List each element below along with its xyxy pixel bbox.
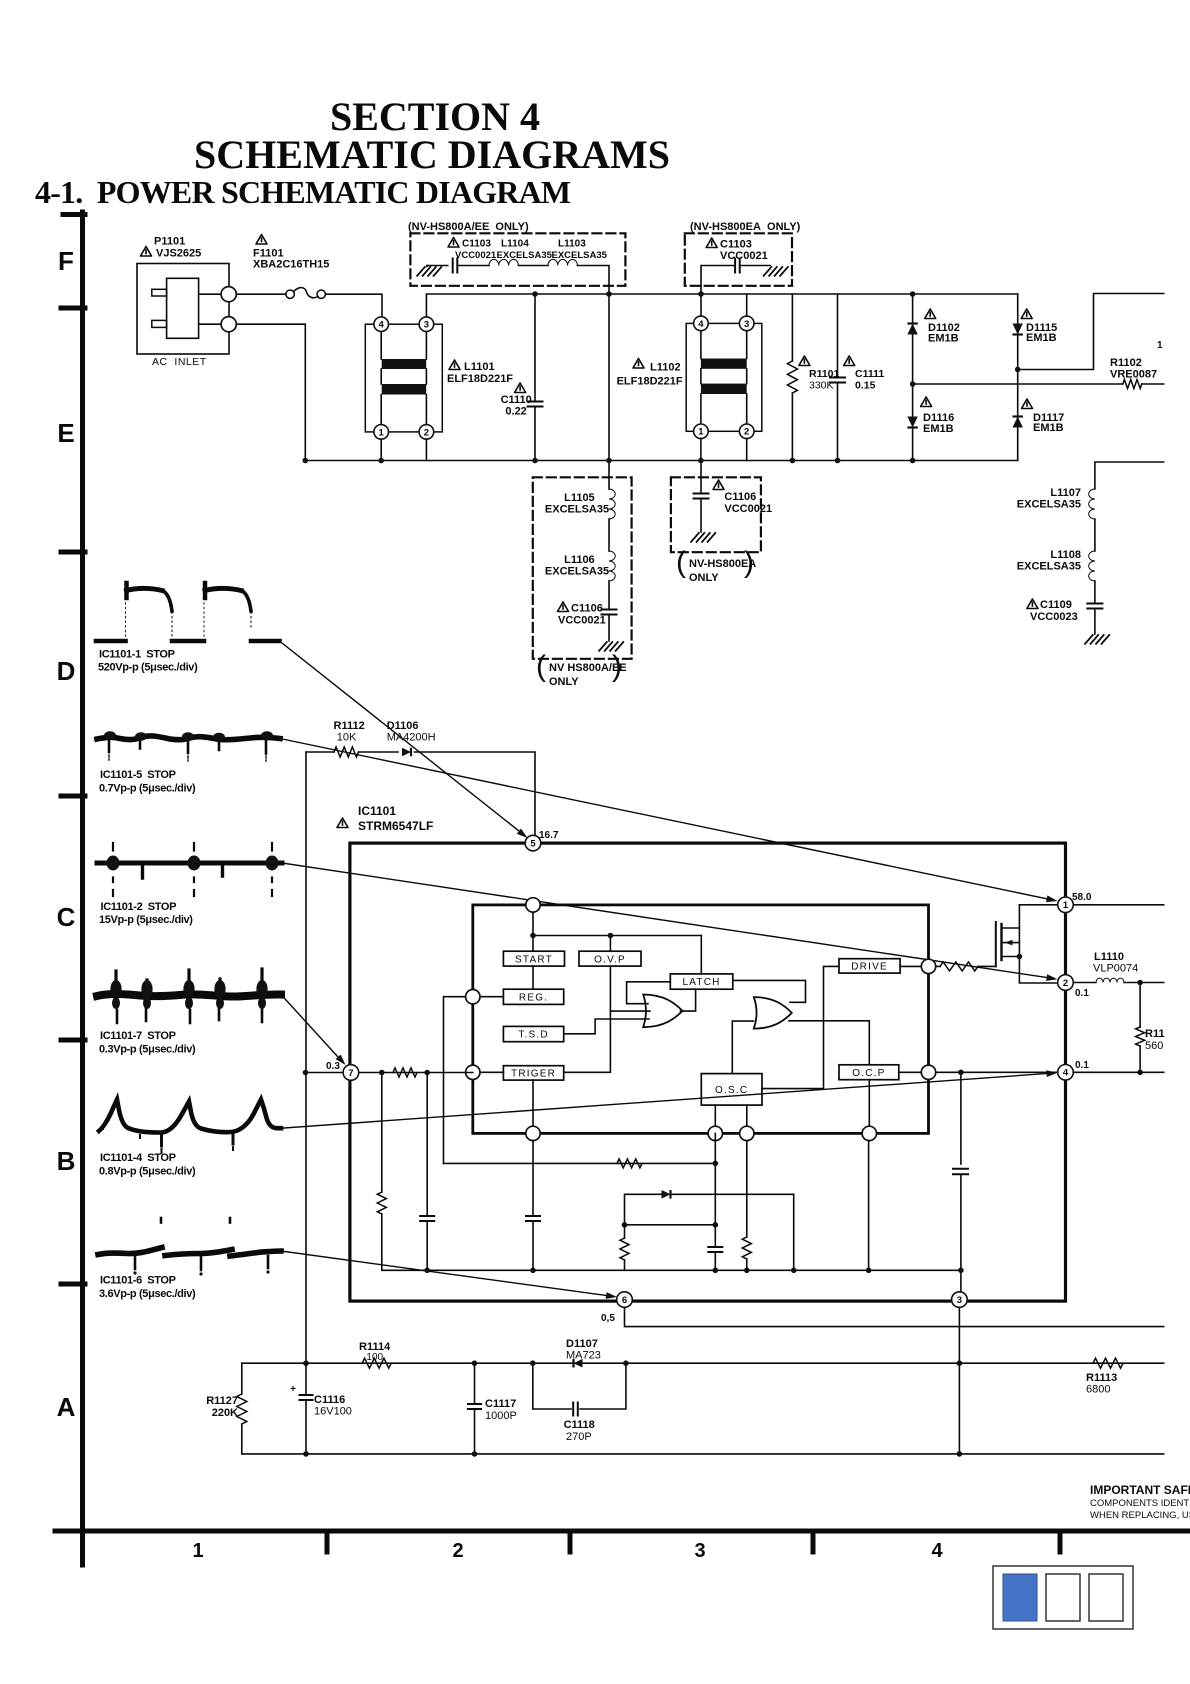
wire pin4 node down to pin3 with capacitor: [960, 1072, 962, 1164]
pin7 line: [306, 1072, 473, 1074]
svg-text:ONLY: ONLY: [689, 572, 719, 584]
svg-text:AC INLET: AC INLET: [152, 356, 207, 368]
inductor L1107: [1089, 489, 1095, 519]
gate G2 (OR): [754, 997, 792, 1029]
svg-text:WHEN REPLACING, USE ONLY SPECI: WHEN REPLACING, USE ONLY SPECIFIED: [1090, 1510, 1190, 1521]
svg-text:): ): [612, 650, 622, 683]
wire box1 output down across rail A to rail B: [577, 266, 609, 461]
svg-text:EXCELSA35: EXCELSA35: [1017, 561, 1081, 573]
svg-text:10K: 10K: [337, 732, 357, 744]
svg-text:VCC0021: VCC0021: [558, 615, 606, 627]
block OCP: [839, 1065, 899, 1080]
junction dots rails: [532, 291, 538, 297]
pin 2: [1058, 975, 1074, 991]
diode D1102: [912, 294, 914, 384]
wire gate2 output to OCP: [789, 1021, 869, 1065]
svg-text:1: 1: [1063, 900, 1069, 911]
inductor L1104: [489, 259, 518, 265]
svg-text:L1105: L1105: [564, 492, 595, 504]
svg-text:3: 3: [957, 1295, 962, 1306]
svg-text:L1104: L1104: [501, 239, 529, 250]
wire REG node left and down to feedback: [444, 997, 473, 1164]
svg-text:IC1101-1 STOP: IC1101-1 STOP: [99, 649, 175, 661]
connector P1101 AC INLET: [137, 264, 229, 355]
svg-text:(NV-HS800EA ONLY): (NV-HS800EA ONLY): [690, 221, 801, 233]
svg-text:ONLY: ONLY: [549, 676, 579, 688]
svg-text:COMPONENTS IDENTIFIED WITH THE: COMPONENTS IDENTIFIED WITH THE MARK: [1090, 1498, 1190, 1509]
block REG: [503, 989, 563, 1004]
svg-text:IC1101-5 STOP: IC1101-5 STOP: [100, 769, 176, 781]
ground below C1106: [599, 642, 623, 651]
svg-text:5: 5: [530, 839, 536, 850]
svg-text:0,5: 0,5: [601, 1313, 615, 1324]
diode D1115: [1017, 294, 1019, 370]
svg-text:T.S.D: T.S.D: [518, 1030, 548, 1041]
L1101 label: [449, 360, 460, 370]
capacitor C1111: [837, 294, 839, 377]
ground in box1: [417, 267, 441, 276]
option box NV-HS800EA ONLY (lower): [671, 477, 761, 552]
wire LATCH left to gate1 input A: [627, 982, 671, 1004]
internal rail: [382, 1269, 961, 1271]
wire AC bottom down to rail B: [236, 324, 305, 460]
legend box: [993, 1566, 1133, 1629]
wire pin1 internal: [1019, 904, 1057, 906]
svg-text:(: (: [676, 546, 686, 579]
svg-text:A: A: [57, 1392, 76, 1422]
wire OSC right to DRIVE left: [762, 966, 839, 1088]
feedback resistor line: [444, 1162, 716, 1164]
rail H2: [242, 1453, 1168, 1455]
wire L1101 pin1 to rail B: [380, 439, 382, 460]
resistor R1114: [362, 1358, 391, 1368]
inner node bottom1: [526, 1126, 540, 1140]
resistor on pin7 line: [393, 1068, 417, 1077]
leader waveform2 to pin1: [280, 739, 1054, 901]
waveform IC1101-2 trace: [97, 861, 282, 866]
page crop mask: [1165, 283, 1190, 1475]
inductor L1105: [609, 489, 615, 519]
waveform IC1101-6 trace: [98, 1248, 162, 1255]
cap below TRIGER node: [532, 1141, 534, 1216]
svg-text:6800: 6800: [1086, 1384, 1110, 1396]
wire REG to left node: [479, 996, 503, 998]
svg-text:6: 6: [622, 1295, 627, 1306]
svg-text:C1117: C1117: [485, 1398, 516, 1410]
svg-text:F: F: [58, 246, 74, 276]
wire OVP down to gate1 input B: [609, 966, 611, 1011]
svg-text:EXCELSA35: EXCELSA35: [545, 566, 609, 578]
block OVP: [579, 951, 641, 966]
wire long vertical x306: [305, 752, 307, 1363]
block START: [503, 951, 564, 966]
svg-text:C1103: C1103: [462, 239, 491, 250]
svg-text:XBA2C16TH15: XBA2C16TH15: [253, 259, 329, 271]
svg-text:2: 2: [424, 427, 429, 438]
wire bottom rail B: [305, 460, 1017, 462]
svg-text:L1102: L1102: [650, 362, 681, 374]
wire secondary rail right: [1095, 462, 1168, 489]
svg-text:EM1B: EM1B: [928, 333, 959, 345]
wire OCP bottom to bottom node: [868, 1080, 870, 1127]
svg-text:3: 3: [694, 1540, 705, 1562]
svg-text:IC1101-4 STOP: IC1101-4 STOP: [100, 1152, 176, 1164]
svg-text:1: 1: [379, 427, 385, 438]
L1102 label: [633, 359, 644, 369]
svg-text:520Vp-p (5μsec./div): 520Vp-p (5μsec./div): [98, 662, 198, 674]
svg-text:R1112: R1112: [334, 720, 365, 732]
svg-text:REG.: REG.: [519, 992, 548, 1003]
svg-text:R1113: R1113: [1086, 1372, 1117, 1384]
svg-text:3: 3: [424, 320, 429, 331]
svg-text:16V100: 16V100: [314, 1406, 352, 1418]
svg-text:L1108: L1108: [1050, 549, 1081, 561]
gate G1 (OR): [643, 995, 682, 1028]
svg-text:0.8Vp-p (5μsec./div): 0.8Vp-p (5μsec./div): [99, 1166, 196, 1178]
wire pin4 out: [1073, 1071, 1168, 1073]
svg-text:VCC0021: VCC0021: [455, 250, 497, 261]
svg-text:C1110: C1110: [501, 394, 532, 406]
wire pin3 down: [958, 1307, 960, 1454]
pin 7: [343, 1065, 359, 1081]
inductor L1108: [1089, 551, 1095, 581]
wire fuse to L1101 pin4: [325, 294, 382, 316]
svg-text:C1118: C1118: [564, 1419, 595, 1431]
wire gate1 output to LATCH bottom: [681, 989, 696, 1011]
svg-text:EM1B: EM1B: [923, 423, 954, 435]
svg-text:2: 2: [744, 427, 749, 438]
leader waveform1 to pin5: [280, 641, 525, 835]
diode D1117: [1017, 370, 1019, 461]
wire rail A to L1102 pin3: [746, 294, 748, 316]
leader waveform3 to pin2: [282, 863, 1054, 979]
svg-text:R1102: R1102: [1110, 357, 1142, 369]
svg-text:EXCELSA35: EXCELSA35: [552, 250, 608, 261]
svg-text:L1103: L1103: [558, 239, 586, 250]
wire pin1 out: [1073, 904, 1168, 906]
inductor L1110: [1073, 982, 1096, 984]
capacitor C1106 (A/EE): [602, 610, 617, 615]
wire rail B down into box3: [608, 461, 610, 490]
svg-text:R1127: R1127: [206, 1395, 238, 1407]
svg-text:EXCELSA35: EXCELSA35: [497, 250, 553, 261]
svg-text:C1103: C1103: [720, 239, 752, 251]
svg-text:MA4200H: MA4200H: [387, 732, 436, 744]
svg-text:O.C.P: O.C.P: [852, 1068, 885, 1079]
legend white square 1: [1046, 1574, 1080, 1621]
wire TRIGER to left node: [479, 1071, 503, 1073]
capacitor right inner branch: [868, 1141, 870, 1271]
block TSD: [503, 1026, 563, 1041]
capacitor branch C (pin7 to rail): [426, 1073, 428, 1216]
svg-text:B: B: [57, 1146, 76, 1176]
wire bridge + output: [1018, 294, 1168, 370]
svg-text:0.1: 0.1: [1075, 1060, 1089, 1071]
inner node bottom3: [740, 1126, 754, 1140]
block DRIVE: [839, 959, 900, 973]
resistor R1127: [241, 1363, 243, 1394]
wire pin6 out: [625, 1307, 1169, 1326]
svg-text:IMPORTANT SAFETY NOTICE: IMPORTANT SAFETY NOTICE: [1090, 1483, 1190, 1497]
svg-text:3.6Vp-p (5μsec./div): 3.6Vp-p (5μsec./div): [99, 1288, 196, 1300]
svg-text:VCC0023: VCC0023: [1030, 611, 1078, 623]
svg-text:IC1101-6 STOP: IC1101-6 STOP: [100, 1275, 176, 1287]
svg-text:L1107: L1107: [1050, 487, 1081, 499]
diode D1107: [574, 1359, 583, 1368]
wire L1101 pin2 to rail B: [425, 439, 427, 460]
svg-text:MA723: MA723: [566, 1350, 601, 1362]
svg-text:0.22: 0.22: [505, 406, 526, 418]
capacitor C1103 (EA): [701, 266, 735, 295]
IC inner boundary box: [473, 905, 929, 1134]
svg-text:DRIVE: DRIVE: [851, 962, 888, 973]
inductor L1103: [548, 259, 577, 265]
svg-text:2: 2: [1063, 978, 1068, 989]
svg-text:VCC0021: VCC0021: [720, 250, 768, 262]
IC U IC1101 outer box: [350, 843, 1066, 1301]
svg-text:4: 4: [379, 320, 385, 331]
svg-text:C1116: C1116: [314, 1394, 345, 1406]
inner node REG: [466, 990, 480, 1004]
svg-text:560: 560: [1145, 1040, 1163, 1052]
border frame left rule: [80, 212, 85, 1565]
wire L1102 pin2 to rail B: [746, 439, 748, 461]
leader waveform6 to pin6: [281, 1251, 614, 1297]
svg-text:0.7Vp-p (5μsec./div): 0.7Vp-p (5μsec./div): [99, 783, 196, 795]
bottom ruler: [55, 1529, 1190, 1534]
svg-text:SCHEMATIC DIAGRAMS: SCHEMATIC DIAGRAMS: [194, 132, 670, 177]
svg-text:L1106: L1106: [564, 554, 595, 566]
svg-text:4: 4: [698, 319, 704, 330]
svg-text:270P: 270P: [566, 1431, 592, 1443]
svg-text:): ): [744, 546, 754, 579]
wire OSC bottom pins: [714, 1105, 716, 1126]
svg-text:4: 4: [931, 1540, 943, 1562]
resistor branch R (pin7 to rail): [381, 1073, 383, 1193]
waveform IC1101-1 trace: [96, 639, 126, 644]
svg-text:D: D: [57, 656, 76, 686]
resistor R1116: [1139, 983, 1141, 1028]
line filter L1101: [365, 324, 442, 432]
svg-text:STRM6547LF: STRM6547LF: [358, 819, 433, 833]
svg-text:ELF18D221F: ELF18D221F: [447, 373, 513, 385]
svg-text:2: 2: [452, 1540, 463, 1562]
block LATCH: [670, 974, 733, 989]
svg-text:0.3Vp-p (5μsec./div): 0.3Vp-p (5μsec./div): [99, 1044, 196, 1056]
wire DRIVE right to node: [900, 965, 922, 967]
ground below C1109: [1085, 635, 1109, 644]
svg-text:C1109: C1109: [1040, 599, 1072, 611]
internal diode loop: [625, 1194, 794, 1270]
wire OCP right to node: [899, 1071, 922, 1073]
wire pin4 internal: [936, 1071, 1058, 1073]
waveform IC1101-4 trace: [99, 1100, 281, 1133]
leader waveform4 to pin7: [281, 995, 343, 1063]
inductor L1106: [609, 551, 615, 581]
inner node bottom2: [708, 1126, 722, 1140]
rail H1: [242, 1362, 1168, 1364]
capacitor on OSC left leg: [714, 1133, 716, 1246]
svg-text:VCC0021: VCC0021: [724, 503, 772, 515]
svg-text:330K: 330K: [809, 380, 834, 392]
pin 5: [525, 835, 541, 851]
inner node DRIVE: [921, 959, 935, 973]
inner node top: [526, 898, 540, 912]
resistor R1113: [1093, 1358, 1123, 1368]
capacitor C1116: [303, 1360, 309, 1366]
svg-text:D1106: D1106: [387, 720, 419, 732]
svg-text:O.V.P: O.V.P: [594, 954, 626, 965]
capacitor C1103 (A/EE): [453, 259, 458, 273]
svg-text:EXCELSA35: EXCELSA35: [1017, 499, 1081, 511]
fuse F1101: [286, 290, 294, 298]
block OSC: [701, 1074, 762, 1106]
svg-text:C1106: C1106: [724, 491, 756, 503]
svg-text:15Vp-p (5μsec./div): 15Vp-p (5μsec./div): [99, 914, 193, 926]
pin 1: [1058, 897, 1074, 913]
capacitor C1110: [534, 294, 536, 401]
svg-text:0.1: 0.1: [1075, 988, 1089, 999]
svg-text:START: START: [515, 954, 553, 965]
svg-text:L1110: L1110: [1094, 951, 1124, 963]
svg-text:C: C: [57, 902, 76, 932]
resistor R1101: [791, 294, 793, 361]
svg-text:VJS2625: VJS2625: [156, 248, 201, 260]
svg-text:IC1101-7 STOP: IC1101-7 STOP: [100, 1030, 176, 1042]
svg-text:16.7: 16.7: [539, 830, 559, 841]
svg-text:VLP0074: VLP0074: [1093, 963, 1138, 975]
capacitor C1106 (EA): [700, 461, 702, 494]
wire D1106 to pin5: [415, 752, 536, 835]
wire TRIGER bottom to bottom node: [532, 1080, 534, 1126]
svg-text:EM1B: EM1B: [1033, 422, 1064, 434]
wire START to REG: [532, 966, 534, 989]
svg-text:LATCH: LATCH: [683, 977, 721, 988]
svg-text:C1111: C1111: [855, 368, 884, 380]
wire top rail A: [426, 294, 1017, 316]
svg-text:IC1101: IC1101: [358, 804, 396, 818]
svg-text:EXCELSA35: EXCELSA35: [545, 504, 609, 516]
svg-text:P1101: P1101: [154, 236, 185, 248]
wire TSD right to gate1 input C: [565, 1019, 650, 1034]
svg-text:220K: 220K: [212, 1407, 238, 1419]
svg-text:IC1101-2 STOP: IC1101-2 STOP: [101, 901, 177, 913]
pin 6: [617, 1292, 633, 1308]
svg-text:(NV-HS800A/EE ONLY): (NV-HS800A/EE ONLY): [408, 221, 529, 233]
svg-text:3: 3: [744, 319, 749, 330]
svg-text:0.15: 0.15: [855, 380, 876, 392]
svg-text:E: E: [57, 418, 74, 448]
leader waveform5 to pin4: [281, 1073, 1054, 1128]
diode D1106: [402, 748, 411, 757]
resistor on OSC right leg: [746, 1141, 748, 1238]
option box NV HS800A/EE ONLY (lower): [533, 477, 632, 659]
P1101 label: [141, 247, 152, 257]
svg-text:L1101: L1101: [464, 361, 495, 373]
line filter L1102: [686, 323, 762, 431]
svg-text:TRIGER: TRIGER: [511, 1069, 556, 1080]
inner node TRIGER: [466, 1065, 480, 1079]
svg-text:+: +: [290, 1384, 296, 1395]
inner node bottom4: [862, 1126, 876, 1140]
IC1101 label: [337, 818, 348, 828]
block TRIGER: [503, 1066, 563, 1080]
wire LATCH right to gate2: [733, 980, 806, 1002]
svg-text:58.0: 58.0: [1072, 892, 1092, 903]
resistor below diode loop: [624, 1225, 626, 1238]
inner node OCP: [921, 1065, 935, 1079]
svg-text:4-1. POWER SCHEMATIC DIAGRAM: 4-1. POWER SCHEMATIC DIAGRAM: [35, 174, 571, 210]
svg-text:1: 1: [1157, 340, 1163, 351]
ground below C1106 EA: [691, 533, 715, 542]
legend blue square: [1003, 1574, 1037, 1621]
resistor R1102: [1123, 380, 1142, 389]
transistor Q (MOSFET) in IC: [995, 922, 997, 966]
svg-text:ELF18D221F: ELF18D221F: [617, 376, 683, 388]
svg-text:1: 1: [192, 1540, 203, 1562]
resistor R1112: [306, 751, 334, 753]
wire gate2 lower input from OSC: [732, 1021, 753, 1074]
ground in box2: [764, 267, 788, 276]
wire pin5 net to START/OVP/LATCH: [532, 912, 534, 952]
svg-text:VRE0087: VRE0087: [1110, 369, 1157, 381]
svg-text:100: 100: [366, 1352, 383, 1363]
wire AC top to fuse: [236, 293, 286, 295]
resistor gate drive: [936, 965, 940, 967]
waveform IC1101-5 trace: [97, 736, 280, 740]
wire TRIGER right to gate1 input B: [565, 1011, 651, 1072]
pin 4: [1058, 1065, 1074, 1081]
wire L1102 pin1 to rail B: [700, 439, 702, 461]
svg-text:O.S.C: O.S.C: [715, 1085, 748, 1096]
legend white square 2: [1089, 1574, 1123, 1621]
svg-text:0.3: 0.3: [326, 1061, 340, 1072]
svg-text:7: 7: [348, 1068, 353, 1079]
diode D1116: [912, 384, 914, 461]
capacitor C1117: [472, 1360, 478, 1366]
svg-text:4: 4: [1063, 1068, 1069, 1079]
pin 3: [952, 1292, 968, 1308]
waveform IC1101-7 trace: [97, 994, 281, 996]
svg-text:(: (: [536, 650, 546, 683]
svg-text:D1107: D1107: [566, 1338, 598, 1350]
svg-text:1: 1: [698, 427, 704, 438]
svg-text:C1106: C1106: [571, 603, 603, 615]
wire rail A to L1102 pin4: [700, 294, 702, 316]
wire AC mid rail with R1102: [913, 383, 1123, 385]
svg-text:1000P: 1000P: [485, 1410, 517, 1422]
capacitor C1118 loop: [533, 1363, 571, 1409]
svg-text:EM1B: EM1B: [1026, 332, 1057, 344]
capacitor C1109: [1087, 604, 1102, 609]
